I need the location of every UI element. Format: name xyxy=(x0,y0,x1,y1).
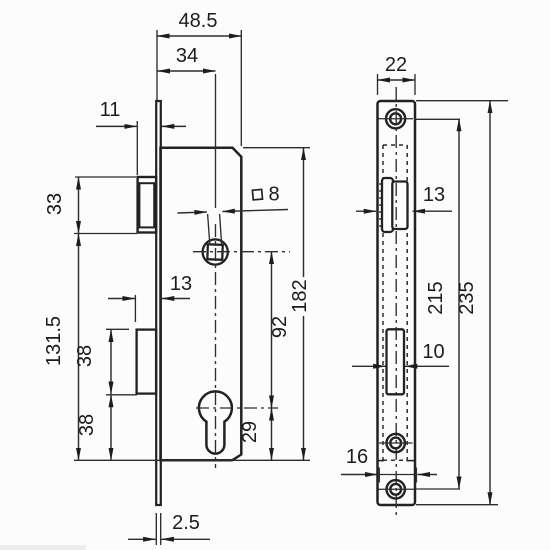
svg-text:2.5: 2.5 xyxy=(172,512,200,534)
svg-text:13: 13 xyxy=(170,273,192,295)
svg-text:11: 11 xyxy=(100,99,121,121)
svg-text:38: 38 xyxy=(76,414,98,436)
svg-text:48.5: 48.5 xyxy=(179,10,218,32)
svg-text:235: 235 xyxy=(456,281,478,314)
svg-text:16: 16 xyxy=(346,446,368,468)
svg-text:34: 34 xyxy=(176,45,198,67)
svg-text:38: 38 xyxy=(74,345,96,367)
svg-text:33: 33 xyxy=(44,193,66,215)
svg-text:215: 215 xyxy=(425,281,447,314)
svg-text:29: 29 xyxy=(239,421,261,443)
svg-text:10: 10 xyxy=(422,341,444,363)
svg-text:182: 182 xyxy=(289,279,311,312)
svg-text:22: 22 xyxy=(385,54,407,76)
svg-text:92: 92 xyxy=(269,316,291,338)
svg-text:131.5: 131.5 xyxy=(43,316,65,366)
svg-text:13: 13 xyxy=(423,184,445,206)
svg-text:8: 8 xyxy=(268,184,279,206)
